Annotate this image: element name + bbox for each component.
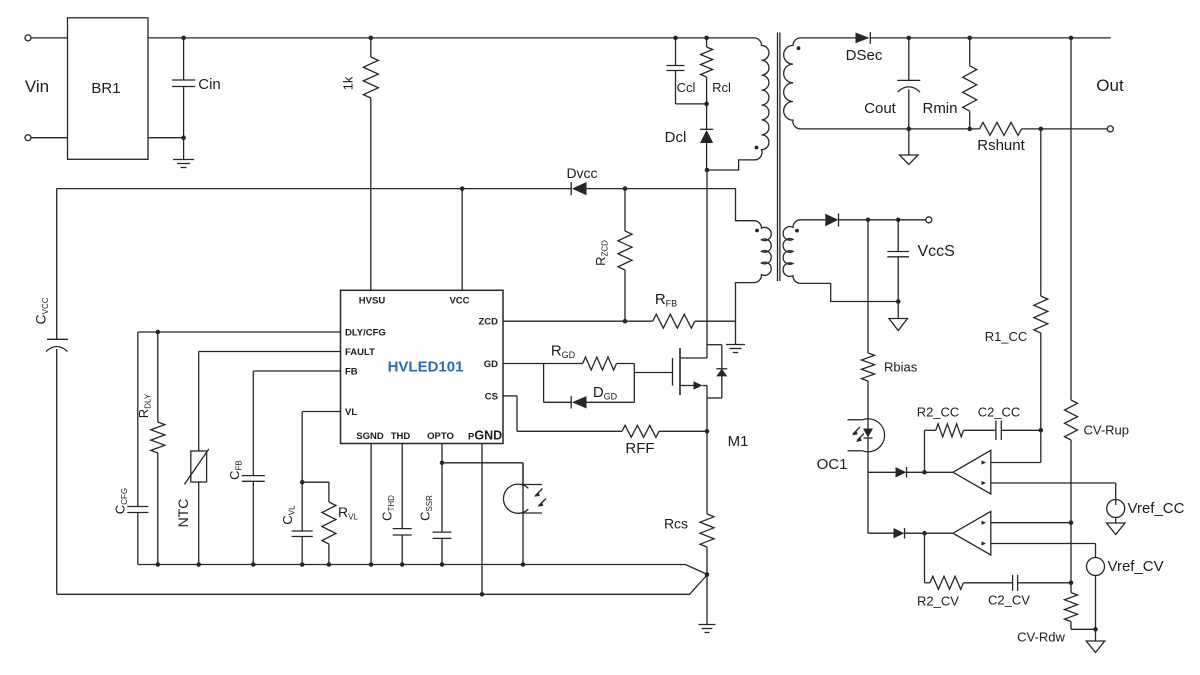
- VccS terminal: [926, 217, 932, 223]
- wire GD pin: [503, 364, 544, 403]
- wire SGND pin to ground bus: [370, 444, 372, 565]
- wire PGND pin to power ground bus: [480, 444, 485, 597]
- diode Dcl: [665, 104, 714, 170]
- op-amp CC error amplifier: [953, 450, 991, 494]
- resistor 1k: [341, 36, 379, 291]
- wire DLY/CFG pin: [138, 331, 341, 333]
- svg-text:Dvcc: Dvcc: [566, 165, 597, 181]
- svg-text:Out: Out: [1096, 76, 1124, 95]
- capacitor Cthd: [380, 444, 412, 565]
- wire output sense divider: [1069, 36, 1074, 400]
- svg-text:Vref_CC: Vref_CC: [1128, 500, 1185, 517]
- feedback network R2_CC: [917, 405, 996, 473]
- capacitor Cfb: [227, 371, 341, 565]
- svg-text:R2_CC: R2_CC: [917, 405, 960, 420]
- svg-text:FB: FB: [345, 367, 358, 378]
- signal ground bus: [138, 565, 708, 575]
- label Out: [1096, 76, 1124, 95]
- output terminal: [1107, 126, 1113, 132]
- capacitor Ccl: [667, 36, 707, 104]
- svg-text:R2_CV: R2_CV: [917, 594, 959, 609]
- capacitor on VccS rail: [887, 218, 909, 304]
- capacitor Cvcc: [33, 189, 69, 595]
- svg-text:Rcs: Rcs: [664, 516, 688, 532]
- svg-text:DSec: DSec: [846, 47, 883, 64]
- node: BR1- to Cin junction: [181, 36, 186, 140]
- resistor Rgd: [544, 343, 635, 371]
- capacitor Cout (polarized): [864, 36, 920, 129]
- optocoupler OC1 photo-transistor: [503, 463, 546, 565]
- transformer core: [778, 33, 780, 282]
- svg-text:R1_CC: R1_CC: [985, 329, 1028, 344]
- voltage reference Vref_CV: [1086, 558, 1163, 653]
- label Vin: [25, 77, 49, 96]
- pin PGND: [468, 429, 502, 443]
- svg-text:ZCD: ZCD: [478, 317, 498, 328]
- bridge rectifier BR1: [68, 18, 149, 160]
- svg-text:CV-Rdw: CV-Rdw: [1017, 630, 1065, 645]
- svg-text:BR1: BR1: [91, 80, 120, 97]
- wire OC1 cathode to CV diode row: [867, 472, 869, 533]
- wire BR1 lower output: [148, 137, 184, 139]
- resistor Rshunt: [967, 122, 1025, 154]
- wire output bottom rail: [801, 128, 1108, 130]
- resistor Rvl: [322, 482, 359, 564]
- pin VCC: [449, 296, 469, 307]
- pin GD: [484, 359, 498, 370]
- svg-text:C2_CV: C2_CV: [988, 593, 1030, 608]
- transformer VccS winding (secondary side): [783, 220, 898, 302]
- pin VL: [345, 407, 357, 418]
- capacitor Cvl: [280, 482, 313, 564]
- resistor Rfb: [653, 291, 736, 328]
- diode CV (to op-amp output): [868, 528, 953, 539]
- transformer secondary winding: [784, 38, 801, 129]
- resistor Rcs: [664, 514, 714, 577]
- resistor Rzcd: [593, 186, 632, 323]
- pin SGND: [356, 431, 384, 442]
- svg-text:DLY/CFG: DLY/CFG: [345, 327, 386, 338]
- ground below auxiliary winding: [726, 345, 745, 353]
- diode on VccS winding: [801, 214, 926, 227]
- svg-text:HVSU: HVSU: [359, 296, 386, 307]
- svg-text:Vin: Vin: [25, 77, 49, 96]
- svg-text:Vref_CV: Vref_CV: [1108, 558, 1164, 575]
- ground below Rcs: [699, 625, 716, 633]
- wire CS pin to RFF: [503, 396, 622, 431]
- svg-text:HVLED101: HVLED101: [388, 359, 464, 376]
- svg-text:Dcl: Dcl: [665, 129, 687, 146]
- svg-text:NTC: NTC: [175, 499, 191, 528]
- diode CC (to op-amp output): [868, 467, 953, 478]
- svg-text:OC1: OC1: [817, 456, 848, 473]
- pin HVSU: [359, 296, 386, 307]
- resistor R1_CC: [985, 127, 1048, 463]
- diode Dvcc: [566, 165, 597, 195]
- svg-text:Rcl: Rcl: [712, 80, 731, 95]
- wire VCC pin to supply line: [460, 186, 465, 290]
- optocoupler OC1 LED: [817, 419, 885, 473]
- input terminal Vin-: [25, 135, 68, 141]
- svg-text:M1: M1: [728, 433, 749, 450]
- input terminal Vin+: [25, 35, 68, 41]
- ground below VccS: [889, 302, 908, 331]
- svg-text:Cin: Cin: [198, 76, 221, 93]
- svg-text:Cout: Cout: [864, 100, 897, 117]
- wire CV op-amp ref input to Vref_CV: [991, 544, 1096, 558]
- voltage reference Vref_CC: [1106, 500, 1184, 535]
- diode DSec: [801, 32, 883, 64]
- svg-text:1k: 1k: [341, 76, 356, 90]
- svg-text:Rmin: Rmin: [922, 100, 957, 117]
- svg-text:SGND: SGND: [356, 431, 384, 442]
- wire top rail from BR1 to transformer primary: [148, 37, 755, 39]
- ground below Cin: [173, 160, 194, 168]
- svg-text:THD: THD: [391, 431, 411, 442]
- resistor Rbias: [862, 218, 918, 420]
- svg-text:Rshunt: Rshunt: [977, 137, 1025, 154]
- wire Vcc supply line (Cvcc to Dvcc to aux winding): [57, 188, 736, 190]
- thermistor NTC: [175, 352, 209, 565]
- wire CV op-amp sense input: [991, 520, 1073, 525]
- capacitor Ccfg: [113, 332, 149, 565]
- pin OPTO: [427, 431, 454, 442]
- wire MOSFET drain line: [705, 168, 710, 358]
- svg-text:CV-Rup: CV-Rup: [1084, 423, 1130, 438]
- pin DLY/CFG: [345, 327, 386, 338]
- wire output top rail: [870, 37, 1111, 39]
- op-amp controller IC HVLED101: [341, 290, 504, 443]
- diode Dgd: [544, 384, 635, 409]
- resistor CV-Rup: [1065, 400, 1130, 583]
- capacitor Cssr on OPTO pin: [418, 444, 452, 565]
- wire FAULT pin: [199, 351, 341, 353]
- pin ZCD: [478, 317, 498, 328]
- power ground bus: [57, 575, 708, 595]
- pin FB: [345, 367, 358, 378]
- transformer primary winding: [707, 38, 769, 170]
- svg-text:CS: CS: [485, 391, 498, 402]
- resistor CV-Rdw: [1017, 583, 1095, 645]
- transistor M1 (power MOSFET): [673, 345, 749, 450]
- resistor Rmin: [922, 36, 976, 129]
- wire OPTO pin to optocoupler transistor: [442, 463, 523, 485]
- wire MOSFET source line: [706, 386, 708, 515]
- resistor RFF: [622, 425, 709, 457]
- pin CS: [485, 391, 498, 402]
- svg-text:Ccl: Ccl: [677, 80, 696, 95]
- svg-text:RFF: RFF: [625, 440, 654, 457]
- svg-text:FAULT: FAULT: [345, 347, 375, 358]
- wire ZCD pin: [503, 320, 653, 322]
- op-amp CV error amplifier: [953, 511, 991, 555]
- capacitor C2_CC: [978, 405, 1041, 441]
- capacitor C2_CV: [988, 575, 1073, 608]
- svg-text:VL: VL: [345, 407, 357, 418]
- transformer auxiliary winding (primary side): [736, 189, 772, 344]
- junctions on signal ground bus: [156, 562, 526, 567]
- svg-text:Rbias: Rbias: [884, 360, 918, 375]
- label VccS: [918, 243, 955, 260]
- wire Rcs to ground: [706, 575, 708, 625]
- feedback network R2_CV: [917, 533, 1013, 608]
- svg-text:PGND: PGND: [468, 429, 502, 443]
- svg-text:VccS: VccS: [918, 243, 955, 260]
- wire gate loop to MOSFET gate: [634, 364, 672, 403]
- capacitor Cin: [172, 38, 221, 160]
- svg-text:OPTO: OPTO: [427, 431, 454, 442]
- pin FAULT: [345, 347, 375, 358]
- resistor Rdly: [136, 330, 165, 565]
- resistor Rcl: [701, 36, 731, 107]
- ground below Cout: [900, 127, 919, 165]
- pin THD: [391, 431, 411, 442]
- svg-text:GD: GD: [484, 359, 498, 370]
- svg-text:C2_CC: C2_CC: [978, 405, 1021, 420]
- svg-text:VCC: VCC: [449, 296, 469, 307]
- wire VL pin: [300, 412, 341, 485]
- wire CC op-amp ref input to Vref_CC: [991, 483, 1116, 500]
